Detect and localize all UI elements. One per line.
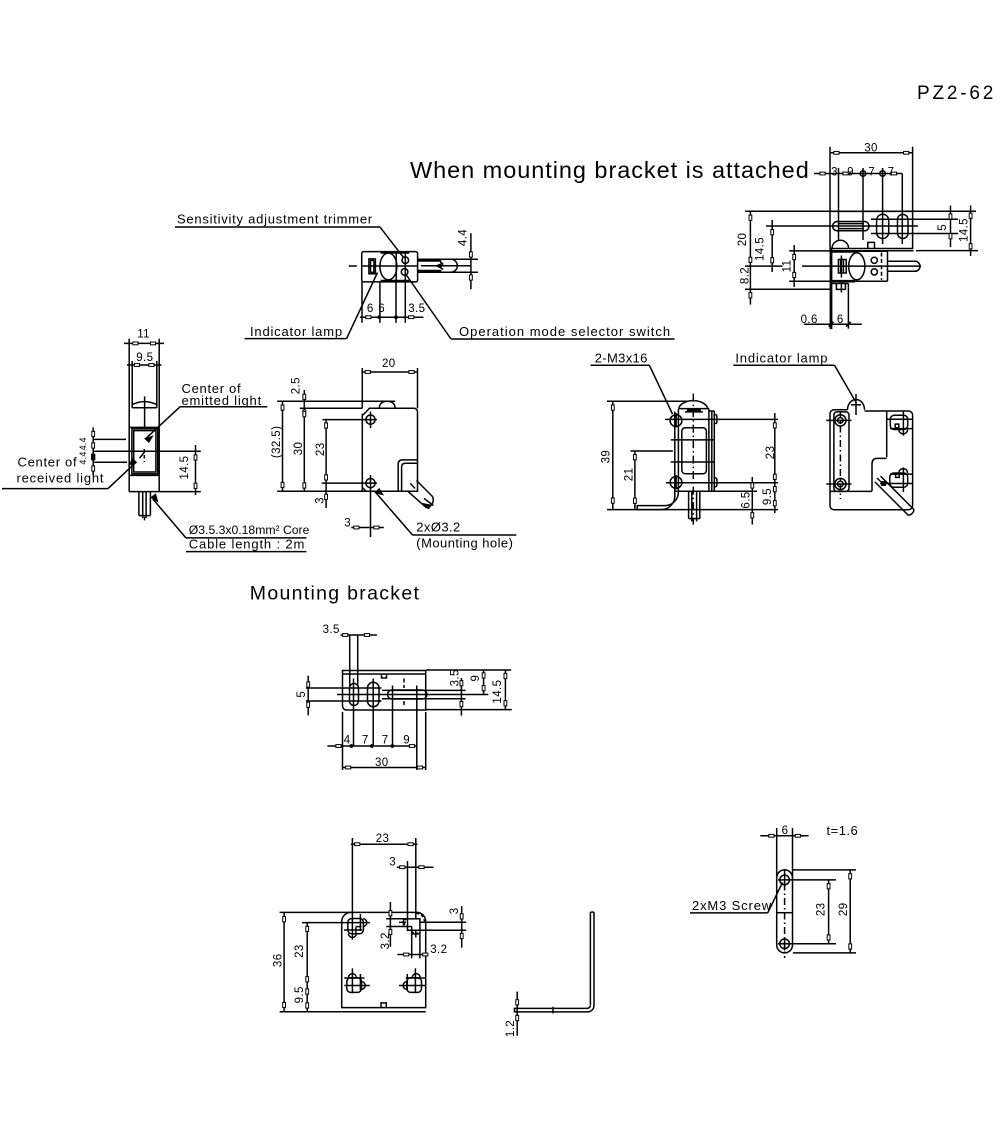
front view lens dome <box>679 401 708 409</box>
svg-text:2xØ3.2: 2xØ3.2 <box>416 520 460 535</box>
dim 2.5 <box>303 390 305 415</box>
dim 3 (side view left) <box>325 483 327 508</box>
axis extension left <box>745 265 783 267</box>
back sensor right edge <box>886 411 888 458</box>
svg-text:Center of: Center of <box>18 455 78 470</box>
side view body outline <box>362 408 417 491</box>
dim 6 and 0.6 (leg) <box>804 323 862 325</box>
svg-text:8.2: 8.2 <box>740 267 752 284</box>
body center line <box>94 450 201 452</box>
svg-text:When mounting bracket is attac: When mounting bracket is attached <box>410 157 810 183</box>
svg-text:(32.5): (32.5) <box>271 426 283 458</box>
dim 9.5 (front view) <box>774 483 776 513</box>
cable holder notch <box>398 460 417 491</box>
bracket vertical slot 2 <box>898 214 909 238</box>
svg-text:3.2: 3.2 <box>380 932 392 949</box>
svg-text:7: 7 <box>362 734 369 746</box>
mounting hole bottom <box>366 479 375 488</box>
bracket tab top right <box>714 415 717 424</box>
dim 23 (front view) <box>774 413 776 483</box>
bracket top view outline <box>830 211 913 248</box>
top view internal lines <box>395 254 397 281</box>
svg-text:3: 3 <box>389 856 396 868</box>
svg-text:6: 6 <box>782 825 789 837</box>
svg-text:30: 30 <box>375 757 389 769</box>
svg-text:Cable length : 2m: Cable length : 2m <box>189 536 305 551</box>
left view lens window sides <box>131 361 133 408</box>
svg-text:3.5: 3.5 <box>323 624 340 636</box>
svg-text:9.5: 9.5 <box>762 488 774 505</box>
svg-text:7: 7 <box>888 166 895 178</box>
top view lens <box>380 253 397 280</box>
bracket bottom notch <box>868 242 875 248</box>
dim (32.5) <box>282 401 284 491</box>
front screw boss bottom <box>670 477 682 489</box>
screw center line top (front) <box>666 418 778 420</box>
svg-text:3: 3 <box>831 166 838 178</box>
bracket flat top view outline <box>343 671 426 711</box>
side plate bend line <box>777 912 793 914</box>
leader to screw boss <box>649 365 672 414</box>
svg-text:30: 30 <box>293 442 305 456</box>
extensions right (flat) <box>426 669 511 671</box>
dim 36 <box>280 911 351 913</box>
svg-text:3.2: 3.2 <box>430 944 447 956</box>
slot3 dashed center <box>403 679 405 689</box>
dim 3.2 (plate bottom) <box>411 930 413 958</box>
back screw bottom <box>835 478 846 489</box>
dim 21 <box>630 450 673 452</box>
svg-text:11: 11 <box>782 260 794 273</box>
L side view bottom leg <box>515 1005 595 1012</box>
front view body <box>677 409 679 491</box>
dim chain 4 7 7 9 (flat) <box>327 745 416 747</box>
svg-text:4.4: 4.4 <box>78 451 88 464</box>
bracket flat slot3 horizontal <box>388 690 428 699</box>
emitted light center line <box>94 438 126 440</box>
svg-text:received light: received light <box>17 471 105 486</box>
dim 8.2 (left chain) <box>745 288 832 290</box>
svg-text:Indicator lamp: Indicator lamp <box>250 324 343 339</box>
svg-text:2-M3x16: 2-M3x16 <box>595 350 648 365</box>
received center line (front) <box>671 461 715 463</box>
svg-text:14.5: 14.5 <box>959 218 971 242</box>
bracket plate bent bottom edge <box>342 1011 426 1013</box>
svg-text:23: 23 <box>765 446 777 460</box>
svg-text:0.6: 0.6 <box>801 314 818 326</box>
dim 29 (plate) <box>793 869 856 871</box>
leader to received center <box>108 462 136 488</box>
svg-text:3.5: 3.5 <box>450 669 462 686</box>
plate center line <box>784 869 786 958</box>
dim 9 (flat right) <box>483 670 485 695</box>
dim 3.5 (flat right) <box>460 678 462 716</box>
svg-text:3: 3 <box>449 908 461 915</box>
front lens window <box>682 428 707 474</box>
dim 5 (flat left) <box>307 676 309 716</box>
dim 4.4 4.4 (left view) <box>92 427 94 475</box>
svg-text:PZ2-62: PZ2-62 <box>917 83 996 104</box>
leader to plate screw <box>768 883 783 913</box>
svg-text:23: 23 <box>816 903 828 917</box>
svg-text:29: 29 <box>838 903 850 917</box>
side view lens dome <box>379 401 395 408</box>
top view mode switch circle <box>401 269 408 276</box>
svg-text:36: 36 <box>272 954 284 968</box>
dim 3.2 (plate left) <box>389 902 391 947</box>
bracket vertical slot 1 <box>877 214 889 238</box>
dim 30 (side view) <box>303 415 305 491</box>
svg-text:5: 5 <box>937 224 949 231</box>
svg-text:14.5: 14.5 <box>754 237 766 261</box>
svg-text:Sensitivity adjustment trimmer: Sensitivity adjustment trimmer <box>177 212 373 227</box>
bracket slot tangent lines <box>871 218 958 220</box>
sensor screw holes (side) <box>871 257 877 263</box>
cable (side view) <box>888 260 916 262</box>
front screw boss top <box>670 415 682 427</box>
svg-text:4.4: 4.4 <box>78 437 88 450</box>
dim 14.5 (left chain) <box>771 220 773 272</box>
svg-text:3: 3 <box>344 517 351 529</box>
svg-text:6: 6 <box>837 314 844 326</box>
dim 6 (plate) <box>760 835 808 837</box>
slot center lines vertical (flat) <box>353 679 355 747</box>
svg-text:6: 6 <box>367 303 374 315</box>
left view lens dome <box>132 402 157 405</box>
dim 23 (plate) <box>791 879 836 881</box>
back bracket slot bottom <box>890 473 908 487</box>
dim 6 6 3.5 (top view) <box>361 282 363 323</box>
svg-text:5: 5 <box>296 691 308 698</box>
dim chain 3 9 7 7 <box>814 173 902 175</box>
svg-text:6.5: 6.5 <box>740 491 752 508</box>
screw center line bottom (front) <box>666 482 778 484</box>
dim 11 (left view) <box>124 342 164 344</box>
bracket flat slot1 <box>350 684 359 706</box>
side plate outline <box>776 828 778 945</box>
svg-text:21: 21 <box>623 468 635 482</box>
svg-text:7: 7 <box>868 166 875 178</box>
bracket leg right edge <box>847 287 849 328</box>
slot axis line (flat) <box>337 694 488 696</box>
svg-text:23: 23 <box>294 944 306 958</box>
dim 20 (left chain) <box>745 210 976 212</box>
svg-text:4: 4 <box>344 734 351 746</box>
extension for dim 30 (flat) <box>342 712 344 770</box>
dim 5 (right of bracket) <box>950 206 952 248</box>
back screw center lines <box>826 419 851 421</box>
svg-text:emitted light: emitted light <box>182 393 263 408</box>
plate screw bottom <box>780 939 790 949</box>
dim 30 (bracket top) <box>829 147 831 212</box>
svg-text:9.5: 9.5 <box>294 986 306 1003</box>
dim 6.5 (front view) <box>700 490 757 492</box>
left view emitter/receiver window <box>129 426 159 428</box>
L side notch tick <box>552 1007 554 1014</box>
bracket leg thick edge <box>830 248 833 329</box>
dim 14.5 (left view) <box>195 445 197 495</box>
svg-text:39: 39 <box>601 450 613 464</box>
svg-text:2.5: 2.5 <box>291 377 303 394</box>
leader to indicator window <box>347 273 378 339</box>
dim 3 (plate right) <box>461 906 463 947</box>
svg-text:9.5: 9.5 <box>136 352 153 364</box>
front center line vertical <box>692 394 694 525</box>
svg-text:9: 9 <box>470 675 482 682</box>
svg-text:Ø3.5.3x0.18mm² Core: Ø3.5.3x0.18mm² Core <box>189 523 310 537</box>
svg-text:14.5: 14.5 <box>492 680 504 704</box>
svg-text:30: 30 <box>864 143 878 155</box>
bracket plate front outline <box>342 912 426 1007</box>
side view corner chamfer bottom-left <box>362 488 366 492</box>
dim 3 (side view bottom) <box>351 527 384 529</box>
back view inner rounded rect <box>834 412 849 492</box>
top view center axis line <box>349 265 357 267</box>
mounting hole top <box>366 415 375 424</box>
left view body edges <box>128 339 130 492</box>
top view indicator window <box>369 259 376 274</box>
back bracket slot top <box>890 415 907 429</box>
dim 9.5 (plate left) <box>306 989 309 994</box>
bracket leg slot <box>838 260 846 274</box>
dim 9.5 (left view) <box>127 364 162 366</box>
side view axis line <box>802 265 921 267</box>
dim 23 (plate left) <box>302 922 345 924</box>
back screw top <box>835 415 846 426</box>
svg-text:1.2: 1.2 <box>505 1020 517 1037</box>
dim 20 (side view) <box>361 368 363 408</box>
svg-text:20: 20 <box>382 358 396 370</box>
svg-text:14.5: 14.5 <box>179 456 191 480</box>
center lines of slot arcs <box>838 168 840 240</box>
hole BL <box>347 978 362 993</box>
svg-text:Operation mode selector switch: Operation mode selector switch <box>459 324 671 339</box>
bracket foot (front) <box>637 492 678 510</box>
plate screw top <box>780 875 790 885</box>
top view cable center line <box>421 265 471 267</box>
left view cable <box>138 492 140 516</box>
dim 11 (left chain) <box>789 250 831 252</box>
dim 23 (plate top) <box>351 838 353 915</box>
window dashed center <box>143 449 145 462</box>
svg-text:4.4: 4.4 <box>457 229 469 246</box>
svg-text:9: 9 <box>403 734 410 746</box>
front view bracket right edges <box>711 411 713 491</box>
L side view vertical leg <box>589 912 591 1005</box>
leader to emitted center <box>146 407 181 439</box>
received light center line <box>94 461 127 463</box>
cable at 45 deg <box>417 481 433 497</box>
svg-text:2xM3 Screw: 2xM3 Screw <box>692 898 772 913</box>
slot tangent lines (flat) <box>306 687 382 689</box>
bracket bottom semicircle <box>832 240 849 248</box>
svg-text:6: 6 <box>378 303 385 315</box>
hole TR <box>408 919 420 931</box>
top view cable <box>418 258 451 260</box>
svg-text:20: 20 <box>737 233 749 247</box>
bracket flat notch <box>382 674 387 678</box>
bracket flat slot2 <box>368 682 380 707</box>
dim 3.5 (flat top) <box>349 635 351 686</box>
dim 39 <box>607 400 687 402</box>
cable center line with arrow <box>424 498 433 505</box>
svg-text:9: 9 <box>847 166 854 178</box>
back view indicator dome <box>848 399 865 409</box>
hole TL <box>348 919 364 934</box>
svg-text:11: 11 <box>137 328 150 340</box>
top view sensor body <box>362 252 418 282</box>
dim 1.2 <box>516 992 518 1036</box>
hole TR extensions <box>419 921 466 923</box>
back cable 45deg <box>875 482 909 516</box>
left view body bottom edge <box>129 491 201 493</box>
bracket tab bottom right <box>714 478 717 487</box>
svg-text:7: 7 <box>382 734 389 746</box>
back cable recess <box>872 458 887 491</box>
bracket foot below sensor <box>831 283 848 285</box>
leader to mounting hole <box>376 493 413 536</box>
leader from cable to label <box>152 495 158 502</box>
svg-text:3.5: 3.5 <box>408 303 425 315</box>
back sensor bottom edge <box>830 490 872 492</box>
boss cross ticks <box>665 418 666 420</box>
leader to mode switch <box>406 275 451 340</box>
svg-text:23: 23 <box>376 833 390 845</box>
top view trimmer circle <box>402 257 409 264</box>
left view center line upper <box>144 396 146 427</box>
front cable <box>688 491 690 518</box>
dim 3 (plate top) <box>397 866 434 868</box>
svg-text:3: 3 <box>315 497 327 504</box>
top view thick front edges <box>381 251 410 253</box>
emitted center line (front) <box>671 439 715 441</box>
leader to indicator dome <box>835 365 856 401</box>
sensor lens (side) <box>849 253 865 280</box>
trimmer slot front <box>687 409 701 412</box>
svg-text:23: 23 <box>315 443 327 457</box>
bracket horizontal slot <box>833 222 869 231</box>
sensor hidden edge <box>881 253 883 281</box>
front view bracket plate left edge <box>674 412 676 498</box>
dim 14.5 (flat right) <box>504 670 506 710</box>
svg-text:Indicator lamp: Indicator lamp <box>735 350 828 365</box>
svg-text:Mounting bracket: Mounting bracket <box>250 583 420 605</box>
svg-text:t=1.6: t=1.6 <box>827 823 859 838</box>
extension lines left (side view) <box>277 400 395 402</box>
leader to trimmer <box>380 227 404 258</box>
leg slot center line <box>840 256 842 278</box>
hole BR <box>407 978 422 993</box>
dim 23 (side view) <box>325 420 327 484</box>
back view outline <box>830 410 913 510</box>
bracket slot axis line <box>766 225 918 227</box>
svg-text:(Mounting hole): (Mounting hole) <box>416 536 513 551</box>
dim 14.5 (right of bracket) <box>916 250 978 252</box>
dim 30 (flat) <box>343 767 426 769</box>
bracket plate bottom notch <box>381 1003 386 1008</box>
dim 4.4 (top view cable) <box>444 258 478 260</box>
sensor side view under bracket <box>855 250 888 252</box>
